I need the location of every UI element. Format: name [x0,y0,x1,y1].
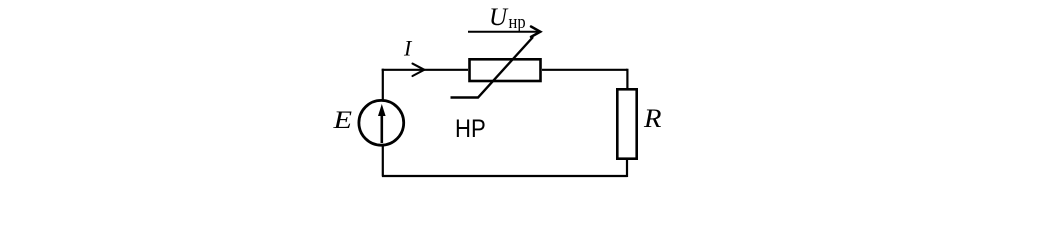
svg-text:R: R [643,104,662,133]
svg-text:E: E [332,106,352,134]
wire top-right segment [542,69,628,71]
nonlinear resistor diagonal stroke with tail [451,37,534,98]
source E arrow [380,112,383,143]
voltage arrow U_nr head [531,27,540,37]
svg-text:нр: нр [509,11,526,32]
voltage arrow U_nr line [468,31,538,33]
source E circle [359,100,404,145]
resistor R (rectangle) [617,89,636,158]
wire bottom [382,175,628,177]
svg-text:НР: НР [455,115,486,144]
wire right vertical top [626,69,628,90]
wire left vertical top [382,69,384,100]
wire left vertical bottom [382,146,384,177]
wire top-left segment [382,69,468,71]
svg-text:I: I [403,36,413,61]
nonlinear resistor NR (rectangle) [470,59,541,81]
svg-text:U: U [489,4,509,31]
wire right vertical bottom [626,158,628,177]
current arrowhead on top wire [413,64,425,76]
